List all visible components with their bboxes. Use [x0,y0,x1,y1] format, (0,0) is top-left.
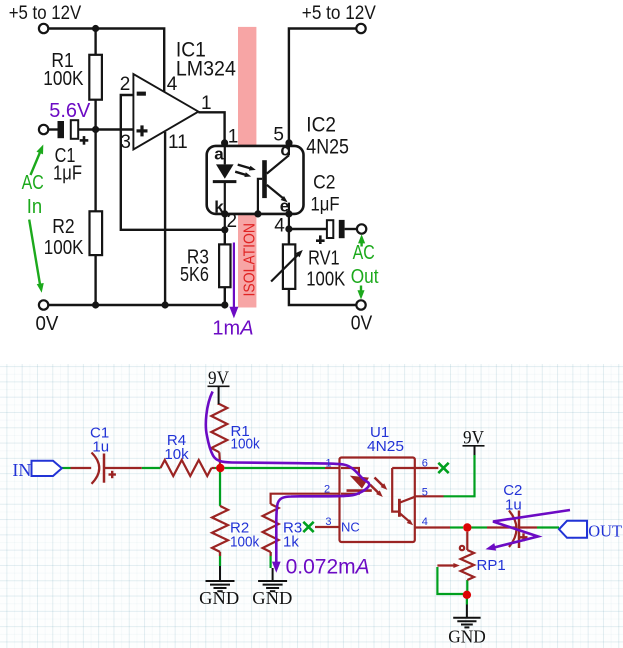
svg-text:9V: 9V [208,368,229,389]
svg-text:0.072mA: 0.072mA [286,556,370,579]
svg-text:10k: 10k [164,446,189,463]
svg-text:4N25: 4N25 [367,438,404,455]
svg-text:3: 3 [325,516,331,528]
svg-text:100k: 100k [230,533,260,550]
svg-text:NC: NC [341,520,360,535]
svg-text:GND: GND [448,626,486,646]
svg-text:5: 5 [422,487,428,499]
svg-text:9V: 9V [463,428,484,449]
svg-text:RP1: RP1 [477,557,506,574]
svg-text:2: 2 [324,483,330,495]
svg-text:1u: 1u [505,497,522,514]
svg-text:6: 6 [422,458,428,470]
svg-text:1k: 1k [283,533,299,550]
svg-text:1u: 1u [92,439,109,456]
svg-text:GND: GND [252,588,292,608]
svg-text:1: 1 [326,458,332,470]
svg-text:4: 4 [422,516,428,528]
svg-text:OUT: OUT [588,521,622,540]
svg-text:100k: 100k [231,436,261,453]
svg-text:GND: GND [199,588,239,608]
svg-text:IN: IN [12,460,31,480]
